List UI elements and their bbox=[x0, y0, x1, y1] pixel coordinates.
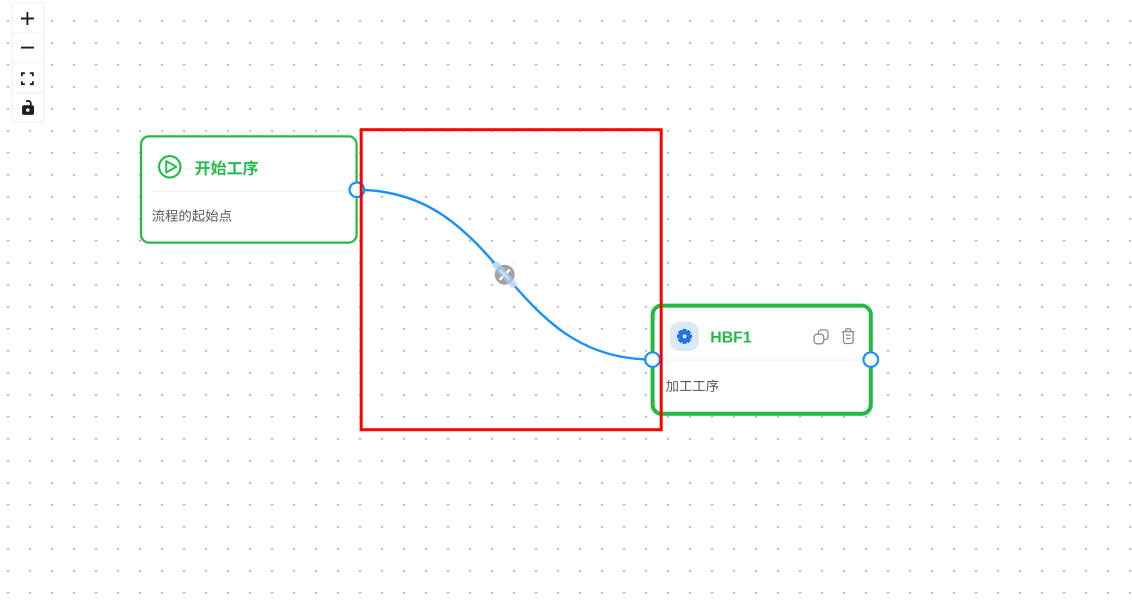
selection rubber band (red) bbox=[361, 130, 661, 430]
icon: copy bbox=[814, 330, 828, 344]
subtitle 加工工序 bbox=[666, 379, 719, 391]
icon: play circle bbox=[159, 156, 180, 177]
toolbar bbox=[12, 3, 43, 122]
port: HBF1 right bbox=[864, 352, 879, 367]
subtitle 流程的起始点 bbox=[152, 209, 231, 221]
toolbar: unlock bbox=[22, 101, 34, 115]
toolbar: zoom out bbox=[21, 47, 34, 49]
port: HBF1 left bbox=[645, 352, 660, 367]
divider start node bbox=[152, 190, 356, 192]
toolbar: zoom in bbox=[21, 12, 34, 25]
toolbar: fit view bbox=[22, 73, 33, 84]
svg-text:HBF1: HBF1 bbox=[710, 330, 751, 347]
icon: gear in squircle bbox=[670, 322, 699, 351]
edge remove button bbox=[357, 190, 653, 360]
title 开始工序 bbox=[195, 160, 258, 175]
node: start (开始工序) bbox=[141, 136, 357, 242]
icon: trash bbox=[842, 329, 854, 344]
divider HBF1 bbox=[663, 359, 869, 361]
port: start node right bbox=[350, 183, 365, 198]
node: HBF1 bbox=[653, 306, 871, 414]
wire: edge from start node to HBF1 bbox=[357, 190, 653, 360]
